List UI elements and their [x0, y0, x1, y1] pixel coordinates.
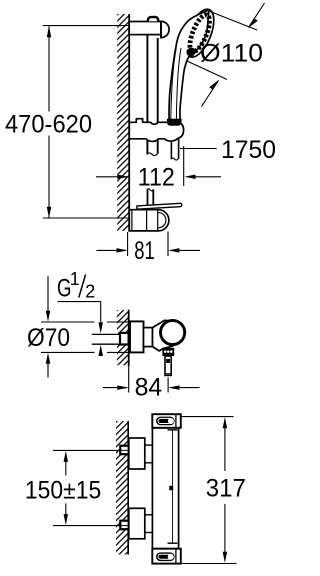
- label G 1/2: [57, 269, 95, 302]
- thermostat body bar: [152, 428, 178, 549]
- bottom union neck lines: [145, 515, 153, 533]
- svg-text:2: 2: [85, 281, 95, 301]
- svg-text:1: 1: [70, 269, 80, 289]
- svg-text:Ø70: Ø70: [27, 324, 70, 352]
- union nut on pipe: [120, 333, 129, 345]
- handle inner contour lines: [171, 49, 176, 120]
- supply pipe stub: [92, 334, 129, 344]
- G1/2 leader underline and arrow to pipe top: [58, 302, 103, 334]
- bottom knob housing: [152, 549, 181, 564]
- svg-text:Ø110: Ø110: [200, 40, 263, 68]
- spray face scallop ring: [186, 12, 214, 54]
- body centerline: [168, 430, 178, 543]
- wall face line (middle): [128, 310, 130, 366]
- mixer body: [153, 320, 174, 351]
- bottom wall bracket body: [129, 210, 169, 231]
- extension lines Ø70: [41, 322, 129, 352]
- rail tube: [147, 34, 158, 156]
- top wall bracket of rail: [129, 17, 169, 38]
- svg-text:1750: 1750: [221, 136, 276, 164]
- svg-text:150±15: 150±15: [25, 477, 101, 505]
- svg-text:81: 81: [134, 237, 155, 265]
- hand shower: spray face outer ellipse: [180, 5, 220, 60]
- extension lines 317: [152, 417, 236, 564]
- svg-text:84: 84: [135, 373, 163, 401]
- wall hatching (top drawing): [117, 14, 129, 231]
- mixer escutcheon (edge view): [130, 321, 144, 352]
- top S-union block: [129, 438, 145, 469]
- lever stem: [165, 356, 171, 375]
- diameter leader lower: [187, 61, 227, 107]
- rail tube lower part (after break): [147, 189, 154, 205]
- dimension 150±15 arrows: [64, 451, 69, 526]
- glide holder on rail: [129, 119, 183, 142]
- wall hatching (bottom): [116, 421, 128, 555]
- bottom bracket soap dish shelf: [137, 203, 182, 209]
- extension lines 150±15: [53, 450, 127, 525]
- wall hatching (middle): [117, 310, 128, 365]
- wall face line (bottom): [127, 421, 129, 555]
- dimension Ø70 arrows: [46, 276, 51, 378]
- svg-text:112: 112: [138, 163, 175, 191]
- dimension 317: [223, 417, 228, 563]
- lever knurled grip: [162, 348, 174, 356]
- svg-text:470-620: 470-620: [5, 110, 92, 138]
- dimension 81: [97, 232, 201, 257]
- bottom S-union block: [129, 508, 145, 539]
- top union neck lines: [145, 445, 153, 463]
- extension line bottom (470-620): [43, 217, 130, 219]
- diameter leader upper (to head tip): [210, 3, 265, 30]
- leader line 1750 (hose length): [180, 148, 217, 150]
- dimension 112: [96, 146, 221, 186]
- svg-text:317: 317: [206, 475, 246, 503]
- bottom S-union nut: [120, 521, 128, 530]
- bottom bracket inner lines: [132, 210, 166, 231]
- dimension line 470-620: [47, 26, 52, 218]
- shower hose below holder: [171, 138, 179, 160]
- hand shower body and handle: [169, 10, 209, 122]
- wall face line (top drawing): [128, 14, 130, 232]
- economy button mark: [169, 486, 173, 491]
- dimension 84: [103, 366, 200, 393]
- top knob housing: [152, 414, 181, 428]
- hand shower inlet nut in holder: [167, 119, 182, 126]
- top S-union nut: [120, 446, 128, 455]
- dark pod at bottom of spray face: [186, 48, 195, 57]
- extension line top (470-620): [43, 25, 130, 27]
- mixer connector shaft: [144, 328, 153, 347]
- G1/2 arrow to pipe bottom: [98, 345, 103, 356]
- mixer knob (bold circle): [161, 320, 185, 344]
